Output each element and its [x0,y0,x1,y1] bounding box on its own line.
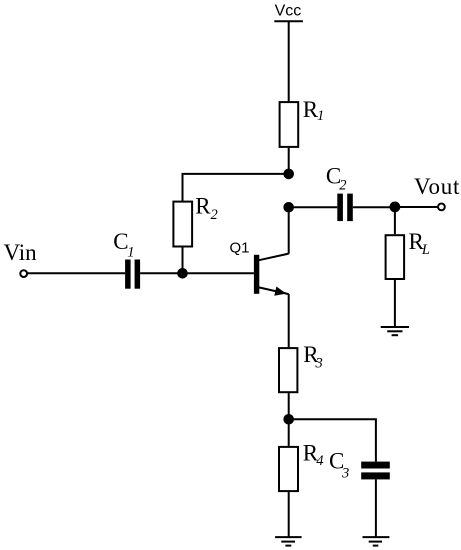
svg-text:R: R [195,194,211,219]
wire C3 to ground [375,479,377,537]
svg-text:4: 4 [316,453,323,469]
svg-text:1: 1 [317,108,324,124]
svg-text:3: 3 [315,355,323,371]
svg-text:Vcc: Vcc [275,3,302,20]
label R3 [303,342,322,371]
ground (C3) [363,537,390,546]
wire R3 to node C [288,393,290,419]
wire emitter to R3 [288,294,290,347]
wire collector to node B [288,207,290,254]
svg-text:2: 2 [211,207,218,223]
resistor R1 [280,102,299,147]
ground (R4) [275,537,302,546]
label R4 [303,440,324,469]
node Vout junction [390,202,401,213]
svg-text:2: 2 [339,178,346,194]
wire node C to R4 [288,419,290,446]
node B (C2 junction) [283,202,294,213]
svg-text:Q1: Q1 [230,239,250,256]
node A (collector/R2 junction) [283,169,294,180]
label R2 [195,194,217,224]
resistor RL [386,235,405,279]
transistor Q1 emitter stroke [259,287,289,294]
wire RL to ground [394,280,396,327]
wire C2 to Vout node [353,206,395,208]
resistor R3 [279,348,297,392]
label R1 [303,97,324,124]
capacitor C1 [125,260,140,289]
capacitor C3 [361,462,390,480]
node base junction [177,268,188,279]
svg-text:1: 1 [127,245,134,261]
wire Vout node to RL [394,207,396,234]
wire node B to C2 [289,206,338,208]
transistor Q1 base bar [254,255,259,294]
wire node A to R2 [183,174,289,201]
svg-text:L: L [421,242,430,258]
label RL [409,229,430,258]
svg-text:C: C [113,229,128,254]
resistor R2 [173,202,192,247]
capacitor C2 [337,194,353,222]
transistor Q1 emitter arrow [274,287,286,296]
wire to Vout terminal [395,206,438,208]
wire R4 to ground [288,492,290,537]
node C (R3/R4/C3 junction) [283,414,294,425]
terminal Vout [438,204,445,211]
label C2 [326,164,347,194]
terminal Vin [20,270,27,277]
svg-text:3: 3 [341,465,349,481]
wire Vin to C1 [28,272,126,274]
Vcc supply bar [274,20,303,22]
resistor R4 [279,447,298,491]
label C1 [113,229,134,260]
wire R2 to base node [182,248,184,274]
svg-text:Vin: Vin [4,240,38,265]
wire node C to C3 [289,419,376,461]
label C3 [329,448,349,481]
wire R1 to node A [288,148,290,174]
transistor Q1 collector stroke [259,254,289,261]
svg-text:Vout: Vout [414,174,460,199]
wire C1 to base [140,272,254,274]
wire Vcc to R1 [288,21,290,101]
ground (RL) [381,327,409,335]
